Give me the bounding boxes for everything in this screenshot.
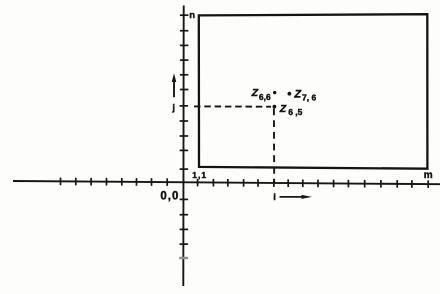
point Z6,6 [273,91,276,94]
svg-text:j: j [171,103,175,114]
svg-text:i: i [273,192,276,203]
up arrow (j direction) [173,79,175,97]
right arrow (i direction) [280,196,304,198]
svg-text:Z: Z [251,87,259,99]
svg-text:1,1: 1,1 [192,170,207,180]
grid rectangle [199,14,428,169]
svg-text:n: n [189,10,195,21]
svg-text:Z: Z [279,103,287,115]
point Z6,5 [273,105,277,109]
svg-text:7, 6: 7, 6 [302,92,316,102]
y-axis (j axis) [182,6,184,287]
x-axis ticks [61,178,429,188]
svg-text:0,0: 0,0 [160,191,179,203]
x-axis (i axis) [13,181,440,184]
dashed vertical line at i [273,109,275,183]
point Z7,6 [288,92,292,96]
y-axis ticks [179,15,188,258]
svg-text:6 ,5: 6 ,5 [288,107,302,117]
svg-text:6,6: 6,6 [259,92,271,102]
dashed horizontal line at j [194,105,271,107]
svg-text:m: m [424,170,433,181]
